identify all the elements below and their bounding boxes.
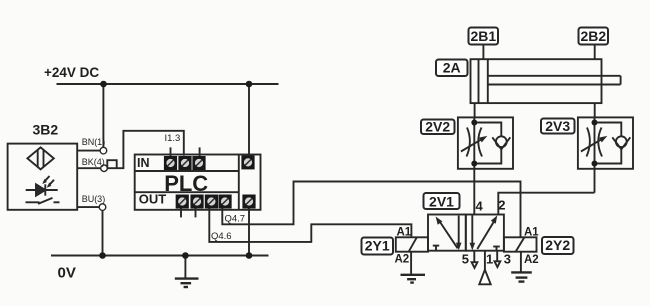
- svg-text:A1: A1: [397, 227, 412, 239]
- svg-text:A1: A1: [524, 227, 539, 239]
- svg-text:IN: IN: [137, 156, 150, 170]
- svg-text:2V1: 2V1: [429, 194, 454, 210]
- svg-text:A2: A2: [524, 254, 539, 266]
- svg-text:0V: 0V: [58, 265, 76, 282]
- svg-text:2Y1: 2Y1: [365, 238, 390, 254]
- svg-text:4: 4: [476, 199, 484, 214]
- svg-text:3: 3: [504, 252, 511, 267]
- svg-text:+24V DC: +24V DC: [44, 65, 99, 80]
- svg-text:BN(1): BN(1): [82, 137, 106, 147]
- svg-text:2A: 2A: [443, 60, 461, 76]
- svg-text:Q4.7: Q4.7: [225, 213, 246, 224]
- svg-text:BU(3): BU(3): [82, 194, 106, 204]
- svg-text:5: 5: [462, 252, 469, 267]
- svg-text:2Y2: 2Y2: [545, 237, 570, 253]
- svg-text:I1.3: I1.3: [165, 133, 181, 144]
- svg-text:Q4.6: Q4.6: [211, 231, 232, 242]
- svg-text:2B1: 2B1: [470, 28, 496, 44]
- svg-text:PLC: PLC: [164, 171, 208, 196]
- svg-text:A2: A2: [395, 254, 410, 266]
- svg-text:BK(4): BK(4): [82, 157, 105, 167]
- svg-text:2V2: 2V2: [425, 119, 450, 135]
- svg-text:OUT: OUT: [139, 191, 167, 206]
- svg-text:2V3: 2V3: [545, 118, 570, 134]
- svg-text:2B2: 2B2: [580, 28, 606, 44]
- svg-text:3B2: 3B2: [33, 122, 59, 138]
- svg-text:1: 1: [486, 252, 493, 267]
- svg-text:2: 2: [498, 197, 505, 212]
